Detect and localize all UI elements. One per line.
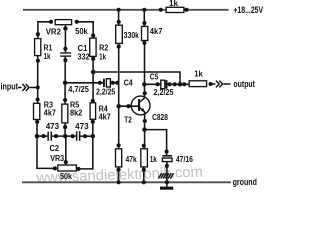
wire 47/16 bottom to ground <box>166 162 168 187</box>
capacitor C2 473 plates <box>47 132 52 141</box>
potentiometer VR3 wiper arrow <box>63 162 68 166</box>
wire tone line mid segment <box>52 135 76 137</box>
output arrow chevrons <box>216 81 223 88</box>
capacitor 47/16 electrolytic <box>162 155 172 162</box>
wire R2 node to output node <box>93 72 180 84</box>
ground rail <box>22 181 231 183</box>
resistor 1k output body <box>189 81 206 87</box>
svg-text:output: output <box>233 79 255 89</box>
node VR3 end terminals <box>53 166 81 171</box>
potentiometer VR2 body <box>55 20 71 25</box>
svg-text:1k: 1k <box>150 154 157 164</box>
svg-text:C2: C2 <box>50 143 60 153</box>
node 47k 1k bottom terminals <box>117 168 146 172</box>
node 47k 1k top terminals <box>117 143 146 148</box>
svg-text:47k: 47k <box>126 154 137 164</box>
node C1 terminals <box>63 47 67 63</box>
svg-text:2,2/25: 2,2/25 <box>154 87 174 97</box>
capacitor C1 332 plates <box>60 52 71 57</box>
chassis hatch on ground lead <box>158 173 173 178</box>
svg-text:input: input <box>1 82 19 92</box>
resistor 1k emitter body <box>141 149 148 167</box>
resistor 47k body <box>116 149 122 167</box>
wire 47k bottom to ground <box>118 167 120 182</box>
wire down to VR3 right end <box>79 136 93 169</box>
wire 1k emitter bottom to ground <box>143 167 145 182</box>
wire output lead <box>211 83 231 85</box>
wire 330k bottom to 47k top (base column) <box>118 43 120 148</box>
wire R3 bottom to C2 line <box>36 120 38 137</box>
resistor 4k7 body (collector load) <box>142 26 148 40</box>
wire C4 right lead to base column <box>110 82 118 84</box>
capacitor C5 2,2/25 electrolytic <box>161 80 168 89</box>
svg-text:1k: 1k <box>99 52 106 62</box>
node R1 terminals <box>36 32 40 63</box>
svg-text:50k: 50k <box>75 26 88 36</box>
node R2 terminals <box>91 33 95 60</box>
+V supply rail <box>23 9 229 11</box>
wire 4k7 bottom to collector <box>144 41 146 98</box>
svg-text:2,2/25: 2,2/25 <box>96 87 115 97</box>
node collector terminal <box>143 91 147 95</box>
wire C5 left lead <box>144 83 161 85</box>
svg-text:1k: 1k <box>44 51 51 61</box>
wire C4 left lead <box>65 82 103 84</box>
svg-text:C828: C828 <box>152 112 168 122</box>
ground bar symbol <box>160 187 173 190</box>
node VR2 terminals <box>49 20 79 31</box>
wire R1 bottom to R3 top (input node) <box>37 56 39 104</box>
node 4k7 terminals <box>142 21 146 45</box>
node tone line junctions <box>35 134 95 139</box>
node supply rail junctions <box>117 8 189 12</box>
resistor 1k supply body <box>166 7 184 12</box>
resistor 330k body <box>116 25 123 43</box>
resistor R1 body <box>35 39 41 56</box>
node output resistor terminal <box>209 82 213 86</box>
svg-text:332: 332 <box>78 52 90 62</box>
svg-text:4k7: 4k7 <box>150 26 163 36</box>
wire R5 bottom to tone line <box>64 123 66 136</box>
resistor R5 body <box>62 104 68 123</box>
node R3 R5 R4 top terminals <box>36 97 95 103</box>
node input junction <box>36 85 40 89</box>
node A output-feed junction <box>91 70 96 75</box>
svg-text:4k7: 4k7 <box>44 108 56 118</box>
node C5 terminals <box>142 82 186 87</box>
wire R4 bottom to tone line <box>92 119 94 136</box>
wire C1 bottom to C4 node <box>64 57 66 83</box>
svg-text:4,7/25: 4,7/25 <box>68 84 89 94</box>
input arrow chevrons <box>22 84 29 91</box>
wire emitter node to 47/16 cap <box>145 130 167 155</box>
potentiometer VR2 wiper arrow <box>63 25 68 29</box>
capacitor C4 2,2/25 electrolytic <box>103 79 110 87</box>
wire VR2 wiper to C1 <box>64 29 66 53</box>
resistor R2 body <box>90 38 96 56</box>
svg-text:8k2: 8k2 <box>70 108 82 118</box>
node 47/16 bottom terminal <box>165 164 169 168</box>
svg-text:50k: 50k <box>60 171 72 181</box>
wire VR2 right to R2 top <box>77 22 94 38</box>
svg-text:473: 473 <box>75 121 89 131</box>
potentiometer VR3 body <box>58 165 77 171</box>
svg-text:1k: 1k <box>194 69 203 79</box>
node 330k terminals <box>117 20 121 49</box>
node VR3 wiper terminal <box>64 160 68 164</box>
svg-text:C5: C5 <box>150 72 159 82</box>
node C4 terminals <box>98 81 120 85</box>
svg-text:1k: 1k <box>169 0 178 8</box>
wire C5 right lead to output 1k <box>167 83 189 85</box>
svg-text:330k: 330k <box>124 30 139 40</box>
node base junction <box>116 104 130 109</box>
wire emitter to 1k <box>144 112 146 149</box>
transistor T2 C828 <box>131 96 150 115</box>
node B C4 junction <box>63 81 68 86</box>
wire rail to 330k <box>118 10 120 25</box>
capacitor C3 473 plates <box>76 131 81 141</box>
wire input lead <box>18 87 38 89</box>
wire VR3 wiper column <box>65 136 67 164</box>
wire rail to 4k7 <box>143 10 145 27</box>
node R3 R5 R4 bottom terminals <box>35 120 95 130</box>
svg-text:+18...25V: +18...25V <box>233 5 263 15</box>
wire base lead <box>119 105 138 107</box>
wire down-left to VR3 left end <box>37 136 55 168</box>
svg-text:4k7: 4k7 <box>99 112 111 122</box>
resistor R4 body <box>90 103 96 120</box>
node emitter bypass junction <box>142 127 147 132</box>
svg-text:VR2: VR2 <box>46 27 62 37</box>
wire tone line right segment <box>80 135 93 137</box>
svg-text:473: 473 <box>46 121 60 131</box>
node 47/16 top terminal <box>165 150 169 154</box>
wire VR2 left to R1 top <box>38 22 51 39</box>
svg-text:ground: ground <box>233 177 257 187</box>
wire tone line left segment <box>37 135 47 137</box>
svg-text:C4: C4 <box>124 77 133 87</box>
svg-text:VR3: VR3 <box>50 153 64 163</box>
wire R2 bottom to R4 top <box>92 56 94 102</box>
svg-text:T2: T2 <box>124 115 132 125</box>
svg-text:47/16: 47/16 <box>176 154 193 164</box>
node ground rail junctions <box>117 180 169 184</box>
wire C4 node to R5 top <box>64 83 66 104</box>
resistor R3 body <box>34 103 40 119</box>
node emitter terminal <box>143 119 147 123</box>
